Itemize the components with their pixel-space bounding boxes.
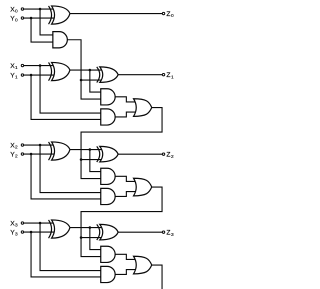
wire XOR U3b output to Z3 (118, 231, 163, 233)
xor gate U3b (sum Z3) (97, 224, 118, 240)
wire Y3 tap to AND A3b (31, 232, 103, 277)
junction XOR U1a output tap (89, 69, 92, 72)
svg-text:Z: Z (166, 151, 170, 158)
svg-text:2: 2 (15, 145, 18, 151)
and gate A2b (X2 & Y2) (101, 188, 115, 204)
input terminal X3 (21, 222, 23, 224)
svg-text:1: 1 (15, 65, 18, 71)
wire AND A2b output to OR O2 (115, 192, 138, 197)
svg-text:Z: Z (166, 229, 170, 236)
junction Y3 tap (30, 231, 33, 234)
svg-text:Z: Z (166, 72, 170, 79)
svg-text:0: 0 (15, 18, 18, 24)
svg-text:Z: Z (166, 11, 170, 18)
svg-text:3: 3 (15, 232, 18, 238)
wire AND A3b output to OR O3 (115, 270, 138, 275)
wire AND A1b output to OR O1 (115, 112, 138, 117)
wire X2 tap to AND A2b (40, 145, 103, 193)
or gate O2 (carry C3) (134, 178, 152, 196)
svg-text:1: 1 (171, 74, 174, 80)
input terminal Y2 (21, 153, 23, 155)
output terminal Z1 (162, 73, 164, 75)
input terminal Y3 (21, 231, 23, 233)
and gate A1a (C1 & (X1^Y1)) (101, 89, 115, 105)
junction carry C3 (80, 236, 83, 239)
xor gate U2a (X2 ^ Y2) (49, 142, 70, 160)
wire carry C1 to XOR U1b (81, 79, 104, 81)
wire carry C2 from OR O1 to stage 2 (81, 108, 162, 160)
svg-text:1: 1 (15, 75, 18, 81)
junction X1 tap (39, 64, 42, 67)
output terminal Z0 (162, 12, 164, 14)
junction XOR U2a output tap (89, 148, 92, 151)
wire X0 tap to AND A0 (40, 9, 54, 35)
wire carry C3 to XOR U3b (81, 237, 104, 239)
wire X1 to XOR U1a (24, 65, 56, 67)
junction X2 tap (39, 144, 42, 147)
wire Y0 tap to AND A0 (31, 18, 54, 42)
svg-text:3: 3 (15, 223, 18, 229)
svg-text:2: 2 (171, 154, 174, 160)
wire carry C3 to AND A3a (81, 238, 103, 257)
input terminal X0 (21, 8, 23, 10)
and gate A2a (C2 & (X2^Y2)) (101, 168, 115, 184)
wire XOR U1 output to Z0 (70, 13, 164, 15)
wire AND A2a output to OR O2 (115, 176, 138, 181)
xor gate U2b (sum Z2) (97, 146, 118, 162)
wire X2 to XOR U2a (24, 144, 56, 146)
wire carry C2 to AND A2a (81, 160, 103, 179)
output terminal Z2 (162, 153, 164, 155)
xor gate U1a (X1 ^ Y1) (49, 62, 70, 80)
and gate A1b (X1 & Y1) (101, 109, 115, 125)
junction X0 tap (39, 8, 42, 11)
wire X1 tap to AND A1b (40, 66, 103, 114)
input terminal X2 (21, 144, 23, 146)
wire XOR U3a tap to AND A3a (90, 228, 103, 250)
wire carry C1 to AND A1a (81, 80, 103, 99)
wire XOR U2a tap to AND A2a (90, 150, 103, 172)
junction Y1 tap (30, 74, 33, 77)
wire carry C2 to XOR U2b (81, 159, 104, 161)
wire X3 tap to AND A3b (40, 223, 103, 270)
or gate O1 (carry C2) (134, 99, 152, 117)
wire XOR U2b output to Z2 (118, 153, 163, 155)
or gate O3 (carry C4) (134, 256, 152, 274)
wire Y3 to XOR U3a (24, 231, 56, 233)
and gate A3a (C3 & (X3^Y3)) (101, 246, 115, 262)
output terminal Z3 (162, 231, 164, 233)
input terminal Y0 (21, 17, 23, 19)
wire Y1 to XOR U1a (24, 74, 56, 76)
input terminal X1 (21, 64, 23, 66)
junction Y2 tap (30, 153, 33, 156)
svg-text:0: 0 (15, 9, 18, 15)
wire Y1 tap to AND A1b (31, 75, 103, 119)
wire Y2 tap to AND A2b (31, 154, 103, 199)
svg-text:0: 0 (171, 13, 174, 19)
junction XOR U3a output tap (89, 226, 92, 229)
wire carry C4 from OR O3 to bottom edge (152, 265, 162, 289)
junction carry C2 (80, 158, 83, 161)
wire carry C1 from AND A0 to stage 1 (67, 40, 81, 80)
junction carry C1 (80, 79, 83, 82)
svg-text:3: 3 (171, 232, 174, 238)
wire XOR U2a output (X2^Y2) (70, 149, 104, 151)
wire XOR U1b output to Z1 (118, 74, 163, 76)
wire AND A3a output to OR O3 (115, 254, 138, 259)
wire Y0 to XOR U1 (24, 17, 56, 19)
xor gate U1 (X0 ^ Y0) (49, 6, 70, 24)
wire carry C3 from OR O2 to stage 3 (81, 187, 162, 238)
wire AND A1a output to OR O1 (115, 97, 138, 102)
and gate A3b (X3 & Y3) (101, 266, 115, 282)
svg-text:2: 2 (15, 154, 18, 160)
wire XOR U1a tap to AND A1a (90, 70, 103, 92)
junction Y0 tap (30, 17, 33, 20)
xor gate U3a (X3 ^ Y3) (49, 220, 70, 238)
and gate A0 (X0 & Y0) (53, 32, 67, 48)
xor gate U1b (sum Z1) (97, 67, 118, 83)
wire X3 to XOR U3a (24, 222, 56, 224)
wire XOR U3a output (X3^Y3) (70, 227, 104, 229)
input terminal Y1 (21, 74, 23, 76)
junction X3 tap (39, 222, 42, 225)
wire Y2 to XOR U2a (24, 153, 56, 155)
wire XOR U1a output (X1^Y1) (70, 69, 104, 71)
wire X0 to XOR U1 (24, 8, 56, 10)
